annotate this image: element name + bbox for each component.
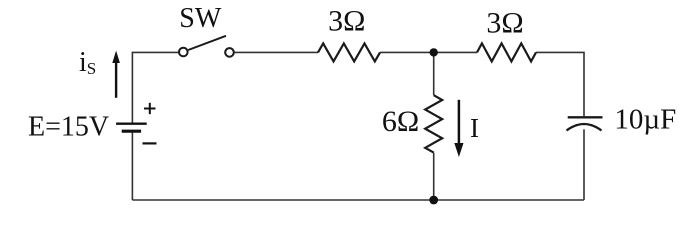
battery - polarity mark [143,142,157,144]
svg-text:3Ω: 3Ω [328,5,365,38]
capacitor C1 [567,117,603,130]
battery + polarity mark [144,103,156,114]
wire: resistor R3 bottom to node B [433,153,435,200]
current arrow i_S (upward, source current) [112,51,120,98]
resistor R3 6Ω (vertical) [425,95,442,152]
wire: battery - terminal down to bottom-left corner [131,133,133,200]
svg-text:6Ω: 6Ω [382,105,419,138]
battery E (cell plates) [116,124,147,132]
svg-text:I: I [470,113,479,143]
switch SW [179,36,234,57]
resistor R2 3Ω [477,43,536,61]
node A (top junction) [430,48,438,56]
node B (bottom junction) [429,196,438,205]
wire: capacitor bottom to bottom-right corner [583,129,585,200]
wire: battery + terminal up to top-left corner and to switch [132,52,179,122]
svg-text:SW: SW [179,3,222,34]
wire: node A down to resistor R3 [433,52,435,95]
svg-text:10µF: 10µF [614,104,676,136]
current arrow I (downward) [454,100,463,157]
wire: R1 to R2 through node A [380,51,477,53]
wire: switch right contact to resistor R1 [234,51,318,53]
wire: bottom bus [132,199,584,201]
wire: R2 to top-right corner down to capacitor [536,52,584,116]
svg-text:iS: iS [79,47,96,78]
resistor R1 3Ω [318,43,380,61]
svg-text:3Ω: 3Ω [486,7,523,40]
svg-text:E=15V: E=15V [28,112,109,143]
